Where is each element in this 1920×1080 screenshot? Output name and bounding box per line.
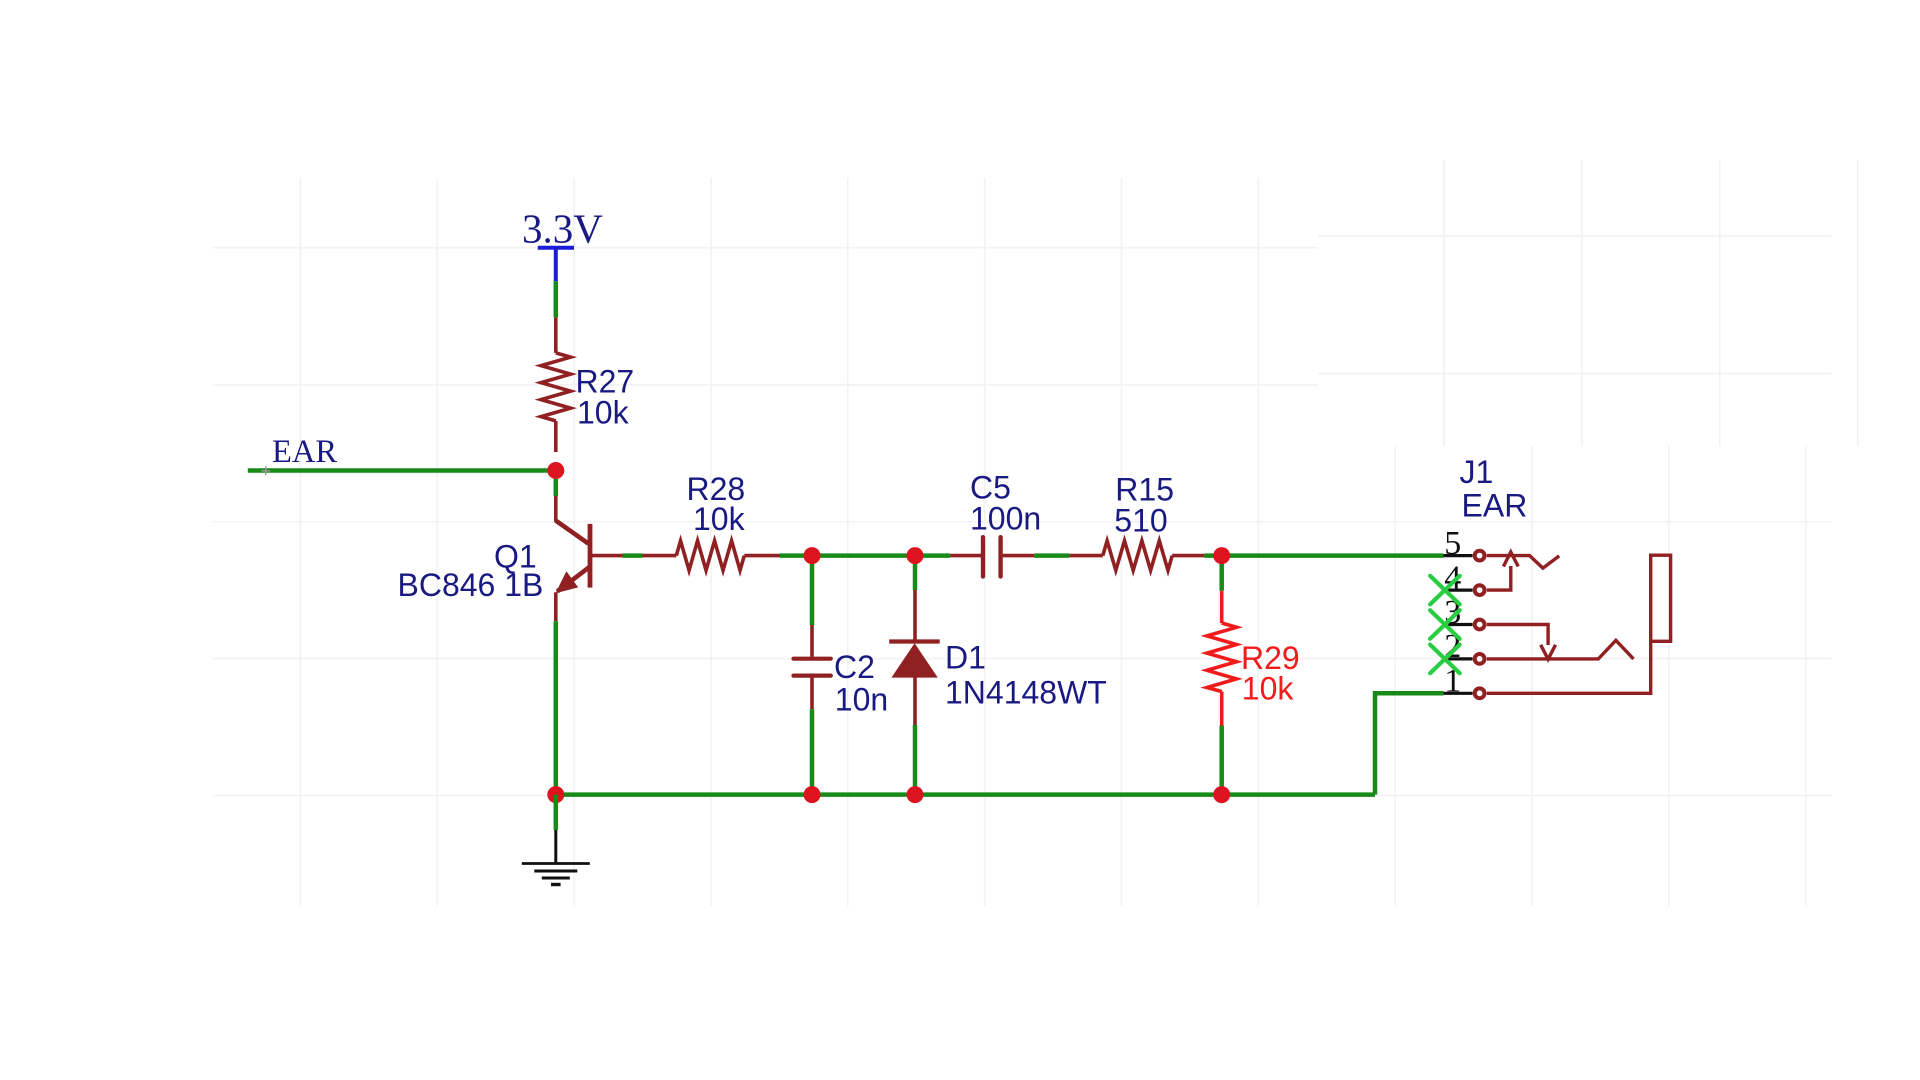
wire bottom rail [556,792,1375,797]
wire power to R27 [554,281,559,317]
svg-text:J1: J1 [1460,454,1494,490]
node junction C5/D1 [907,547,924,564]
svg-text:510: 510 [1114,503,1167,539]
svg-text:10n: 10n [835,682,888,718]
capacitor C5 [950,537,1034,576]
J1 pin 5 lead [1444,554,1473,557]
J1 pin 2 circle [1475,654,1485,664]
ground [522,830,590,885]
wire rail to J1 pin1 [1375,693,1444,794]
svg-text:BC846 1B: BC846 1B [398,567,544,603]
wire junction to collector [554,471,559,497]
J1 pin 2 no-connect X [1430,645,1460,674]
svg-text:EAR: EAR [1462,488,1528,524]
resistor R29 [1207,591,1237,726]
diode D1 [889,590,940,725]
J1 pin 4 circle [1475,585,1485,595]
svg-text:1N4148WT: 1N4148WT [945,675,1107,711]
wire R29 top [1219,556,1224,591]
resistor R1 (R27) [541,318,571,452]
wire R15 to J1 pin5 [1204,553,1443,558]
wire C5 to R15 [1034,553,1069,558]
transistor Q1 [556,496,623,621]
node junction rail/C2 [804,786,821,803]
wire R28 to C5 [780,553,950,558]
pin2 ring contact [1487,640,1634,659]
pin1 sleeve [1487,641,1651,693]
J1 pin 2 lead [1444,657,1473,660]
pin3 switch arm [1487,625,1548,646]
wire D1 bottom [913,725,918,795]
wire base to R28 [623,553,643,558]
svg-text:10k: 10k [577,395,630,431]
J1 pin 1 circle [1475,688,1485,698]
J1 pin 5 circle [1475,551,1485,561]
J1 pin 3 circle [1475,620,1485,630]
svg-text:10k: 10k [693,501,746,537]
dangling end cross [261,466,270,475]
node junction rail/R29 [1213,786,1230,803]
svg-text:D1: D1 [945,639,986,675]
pin4 switch arm [1487,566,1511,590]
wire C2 bottom [810,709,815,794]
J1 pin 3 no-connect X [1430,610,1460,639]
capacitor C2 [794,625,831,709]
svg-text:100n: 100n [970,501,1041,537]
wire C2 top [810,556,815,625]
node junction R15/R29 [1213,547,1230,564]
J1 pin 4 lead [1444,588,1473,591]
wire emitter to ground rail [554,621,559,794]
J1 pin 4 no-connect X [1430,576,1460,605]
node junction EAR/R27/Q1 [547,462,564,479]
J1 pin 1 lead [1444,692,1473,695]
svg-text:3.3V: 3.3V [522,206,603,252]
pin5 tip contact [1487,556,1559,569]
power symbol 3.3V bar [538,248,574,281]
wire D1 top [913,556,918,590]
node junction rail/D1 [907,786,924,803]
J1 jack internals [1487,552,1671,693]
wire ground stem [554,795,559,830]
svg-text:EAR: EAR [272,434,337,470]
wire EAR [248,468,556,473]
node junction R28/C2 [804,547,821,564]
Q1 emitter arrow [556,571,579,593]
J1 pin 3 lead [1444,623,1473,626]
svg-text:10k: 10k [1242,671,1295,707]
svg-text:C2: C2 [834,649,875,685]
resistor R15 [1069,541,1204,571]
resistor R28 [643,541,781,571]
wire R29 bottom [1219,726,1224,795]
node junction rail/ground [547,786,564,803]
